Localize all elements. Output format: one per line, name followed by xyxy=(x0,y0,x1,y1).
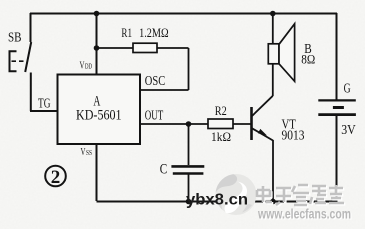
svg-text:OSC: OSC xyxy=(145,74,165,89)
watermark hanzi strokes xyxy=(257,185,345,206)
switch SB xyxy=(10,13,32,111)
wire collector to speaker xyxy=(272,64,274,96)
node emitter rail junction xyxy=(270,199,276,205)
wire top rail xyxy=(30,13,337,15)
svg-text:1kΩ: 1kΩ xyxy=(211,129,231,144)
svg-text:R1: R1 xyxy=(121,25,132,40)
wire OUT xyxy=(140,123,252,125)
wire TG pin xyxy=(30,110,58,112)
svg-text:9013: 9013 xyxy=(282,129,305,144)
svg-text:C: C xyxy=(160,162,168,178)
svg-text:www.elecfans.com: www.elecfans.com xyxy=(257,206,351,222)
capacitor C xyxy=(171,124,204,201)
svg-text:8Ω: 8Ω xyxy=(301,52,315,67)
node VDD rail junction xyxy=(94,11,100,17)
watermark logo circle xyxy=(216,174,257,215)
battery G xyxy=(318,13,356,202)
label circled 2 xyxy=(45,166,66,188)
IC U1 A KD-5601 box xyxy=(58,75,141,145)
speaker B xyxy=(268,24,294,82)
wire speaker drop xyxy=(272,13,274,45)
resistor R2 xyxy=(208,119,233,129)
wire VSS xyxy=(96,144,98,201)
node OUT junction xyxy=(186,121,192,127)
resistor R1 xyxy=(97,43,189,52)
wire emitter to ground rail xyxy=(272,140,274,202)
svg-text:OUT: OUT xyxy=(145,109,164,124)
svg-text:1.2MΩ: 1.2MΩ xyxy=(139,25,169,40)
svg-text:V: V xyxy=(80,60,85,72)
svg-text:SS: SS xyxy=(86,148,92,157)
svg-text:ybx8.cn: ybx8.cn xyxy=(186,192,248,209)
svg-text:R2: R2 xyxy=(215,103,227,118)
node R1 junction xyxy=(94,45,100,51)
svg-text:3V: 3V xyxy=(341,123,356,138)
svg-text:G: G xyxy=(344,82,351,97)
wire VDD xyxy=(96,13,98,75)
node speaker rail junction xyxy=(270,11,276,17)
svg-text:DD: DD xyxy=(85,62,92,71)
wire OSC feedback xyxy=(140,48,189,90)
svg-text:SB: SB xyxy=(8,31,22,46)
watermark elecfans url xyxy=(257,206,352,223)
wire bottom rail xyxy=(97,201,338,203)
node cap rail junction xyxy=(186,199,192,205)
transistor Q1 VT 9013 xyxy=(252,96,274,141)
svg-text:KD-5601: KD-5601 xyxy=(76,108,122,124)
svg-text:V: V xyxy=(81,146,86,158)
svg-text:2: 2 xyxy=(51,167,61,188)
svg-text:TG: TG xyxy=(38,97,51,112)
